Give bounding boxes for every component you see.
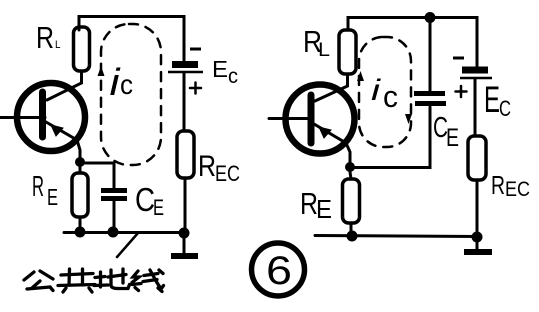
svg-text:E: E — [212, 56, 228, 82]
svg-text:c: c — [120, 69, 133, 100]
svg-text:E: E — [316, 194, 332, 224]
svg-text:EC: EC — [505, 178, 530, 201]
svg-text:E: E — [47, 184, 58, 210]
svg-text:L: L — [55, 39, 61, 51]
svg-text:R: R — [198, 150, 216, 183]
svg-text:E: E — [484, 79, 500, 120]
svg-text:L: L — [318, 40, 330, 61]
svg-text:c: c — [228, 65, 238, 88]
svg-text:6: 6 — [266, 249, 292, 293]
svg-text:C: C — [499, 96, 511, 121]
svg-text:R: R — [32, 171, 44, 203]
svg-text:R: R — [36, 20, 54, 55]
svg-text:R: R — [491, 170, 505, 200]
svg-text:i: i — [371, 74, 382, 107]
svg-text:C: C — [135, 181, 155, 218]
svg-text:E: E — [446, 124, 459, 152]
svg-text:c: c — [383, 79, 398, 114]
svg-text:EC: EC — [215, 161, 240, 186]
svg-text:E: E — [153, 195, 164, 220]
